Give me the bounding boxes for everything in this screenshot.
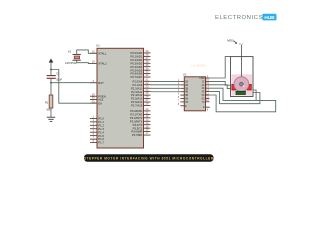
svg-text:10k: 10k: [46, 107, 51, 111]
motor needle: [240, 45, 242, 78]
motor right coil: [247, 84, 251, 90]
svg-text:3B: 3B: [185, 88, 188, 90]
svg-text:PSEN: PSEN: [98, 94, 106, 98]
svg-text:EA: EA: [98, 101, 102, 105]
svg-text:P1.6: P1.6: [98, 137, 104, 141]
svg-text:P1.7: P1.7: [98, 141, 104, 145]
svg-text:P2.3/A11: P2.3/A11: [131, 90, 143, 94]
svg-text:4B: 4B: [185, 92, 188, 94]
svg-text:P2.4/A12: P2.4/A12: [131, 93, 143, 97]
wire RST node down to R1: [50, 83, 52, 95]
svg-text:X1: X1: [68, 50, 72, 54]
capacitor C1: [47, 72, 63, 82]
svg-text:CRYSTAL: CRYSTAL: [65, 61, 77, 65]
title bar: [84, 154, 214, 161]
svg-text:5B: 5B: [185, 95, 188, 97]
resistor R1: [45, 95, 53, 111]
svg-text:2B: 2B: [185, 85, 188, 87]
power VCC arrow: [49, 59, 53, 70]
svg-text:P2.6/A14: P2.6/A14: [131, 100, 143, 104]
svg-text:P3.1/TXD: P3.1/TXD: [130, 112, 142, 116]
svg-text:P0.0/AD0: P0.0/AD0: [131, 51, 143, 55]
MCU U1 right pin stubs, numbers and labels: [130, 49, 151, 137]
svg-text:P0.4/AD4: P0.4/AD4: [131, 65, 143, 69]
svg-text:P0.3/AD3: P0.3/AD3: [131, 61, 143, 65]
svg-text:R1: R1: [45, 100, 49, 104]
svg-text:5C: 5C: [202, 95, 205, 97]
motor left coil: [232, 84, 236, 90]
svg-text:P1.5: P1.5: [98, 134, 104, 138]
svg-text:STEPPER MOTOR INTERFACING WITH: STEPPER MOTOR INTERFACING WITH 8051 MICR…: [84, 157, 214, 161]
ULN right pin stubs COM 1C-7C: [199, 75, 209, 111]
wire crystal top to XTAL1: [77, 50, 97, 55]
svg-text:P2.0/A8: P2.0/A8: [133, 79, 143, 83]
crystal X1: [65, 50, 81, 65]
svg-text:ELECTRONICS: ELECTRONICS: [215, 15, 263, 21]
svg-text:P1.1: P1.1: [98, 120, 104, 124]
svg-text:XTAL1: XTAL1: [98, 51, 107, 55]
svg-text:U2: U2: [183, 73, 187, 77]
svg-text:7C: 7C: [202, 102, 205, 104]
wire ULN 1C to motor left coil pin A: [210, 81, 234, 85]
motor green base: [236, 91, 245, 94]
svg-text:P3.0/RXD: P3.0/RXD: [130, 109, 142, 113]
stepper motor MG1 label and indicator: [227, 39, 244, 46]
svg-text:P0.6/AD6: P0.6/AD6: [131, 72, 143, 76]
svg-text:COM: COM: [199, 78, 204, 80]
svg-text:P1.0: P1.0: [98, 117, 104, 121]
wires P2.0-P2.3 to ULN inputs: [151, 81, 181, 91]
MCU U1 left pin stubs, numbers and labels: [90, 49, 107, 144]
wire crystal bottom to XTAL2: [77, 60, 97, 63]
svg-text:HUB: HUB: [264, 15, 275, 20]
svg-text:P0.1/AD1: P0.1/AD1: [131, 54, 143, 58]
svg-text:6B: 6B: [185, 99, 188, 101]
wire ULN 3C outer loop under motor: [210, 88, 276, 112]
motor MG1 body: [231, 45, 254, 97]
svg-text:P1.3: P1.3: [98, 127, 104, 131]
svg-text:ULN2003A: ULN2003A: [192, 63, 207, 67]
node VCC junction dot: [50, 69, 52, 71]
svg-text:C1: C1: [56, 72, 60, 76]
wire VCC node down to C1: [50, 70, 52, 76]
svg-text:P1.4: P1.4: [98, 130, 104, 134]
svg-text:P2.7/A15: P2.7/A15: [131, 104, 143, 108]
ULN left pin stubs 1B-7B: [178, 79, 189, 108]
svg-text:P0.7/AD7: P0.7/AD7: [131, 75, 143, 79]
svg-text:P3.6/WR: P3.6/WR: [131, 130, 142, 134]
svg-text:2C: 2C: [202, 85, 205, 87]
svg-text:P2.5/A13: P2.5/A13: [131, 97, 143, 101]
svg-text:1C: 1C: [202, 81, 205, 83]
wire R1 to ground: [50, 108, 52, 117]
svg-text:RST: RST: [98, 81, 104, 85]
svg-text:6C: 6C: [202, 98, 205, 100]
svg-text:10uF: 10uF: [56, 77, 62, 81]
wire VCC node to EA (branch right and down): [51, 70, 97, 104]
wire ULN E pin stub: [206, 106, 210, 108]
svg-text:7B: 7B: [185, 102, 188, 104]
svg-text:P3.5/T1: P3.5/T1: [133, 126, 143, 130]
svg-text:P1.2: P1.2: [98, 123, 104, 127]
svg-text:4C: 4C: [202, 92, 205, 94]
svg-text:P3.4/T0: P3.4/T0: [133, 123, 143, 127]
logo ELECTRONICS HUB: [215, 14, 277, 21]
svg-text:P3.3/INT1: P3.3/INT1: [130, 119, 143, 123]
svg-text:P2.1/A9: P2.1/A9: [133, 83, 143, 87]
svg-text:P0.2/AD2: P0.2/AD2: [131, 58, 143, 62]
MCU U1 body: [96, 44, 144, 149]
wire ULN 2C to motor left coil pin B: [210, 85, 234, 89]
motor rotor: [234, 77, 249, 92]
wire C1 to RST node: [50, 79, 52, 83]
svg-text:P3.2/INT0: P3.2/INT0: [130, 116, 143, 120]
svg-text:ALE: ALE: [98, 98, 103, 102]
svg-text:XTAL2: XTAL2: [98, 62, 107, 66]
wire motor right coil pin to inner rail: [253, 90, 257, 100]
svg-text:P3.7/RD: P3.7/RD: [132, 133, 142, 137]
svg-text:U1: U1: [96, 44, 100, 48]
wire ULN 4C mid loop under motor to right coil: [210, 92, 260, 104]
driver U2 ULN2003A body: [183, 63, 206, 111]
svg-text:MG1: MG1: [227, 39, 234, 43]
svg-text:P2.2/A10: P2.2/A10: [131, 86, 143, 90]
svg-text:3C: 3C: [202, 88, 205, 90]
wire ULN COM up to motor pin 1 (top-left): [206, 57, 231, 78]
ground: [47, 117, 55, 121]
svg-text:P0.5/AD5: P0.5/AD5: [131, 68, 143, 72]
wire RST node to RST pin: [51, 82, 97, 84]
svg-text:1B: 1B: [185, 82, 188, 84]
node RST junction dot: [50, 82, 52, 84]
